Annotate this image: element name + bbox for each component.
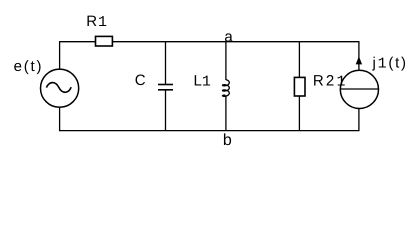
svg-text:R1: R1: [86, 13, 108, 31]
voltage source sine symbol: [46, 83, 71, 93]
wire left branch upper: [59, 41, 61, 69]
svg-text:a: a: [224, 29, 233, 46]
svg-text:L1: L1: [194, 72, 211, 90]
resistor R1 box: [96, 36, 113, 46]
resistor R21 box: [294, 77, 305, 96]
current source j1 circle: [340, 70, 378, 108]
svg-text:C: C: [135, 72, 146, 89]
svg-text:R21: R21: [313, 73, 348, 91]
current source diameter line: [340, 88, 378, 90]
wire inductor branch upper: [225, 42, 227, 80]
wire top horizontal: [60, 41, 359, 43]
svg-text:e(t): e(t): [14, 58, 44, 75]
voltage source e(t) circle: [41, 69, 79, 107]
svg-text:j1(t): j1(t): [372, 55, 408, 73]
wire inductor branch lower: [225, 95, 227, 130]
inductor L1 coil: [223, 80, 230, 97]
current source arrowhead: [356, 56, 362, 64]
capacitor C top plate: [158, 84, 173, 86]
wire R21 branch upper: [298, 42, 300, 78]
svg-text:b: b: [223, 132, 232, 149]
wire bottom horizontal: [60, 130, 359, 132]
wire left branch lower: [59, 107, 61, 131]
wire capacitor branch upper: [165, 42, 167, 85]
wire current source branch lower: [358, 109, 360, 132]
wire R21 branch lower: [298, 96, 300, 131]
capacitor C bottom plate: [158, 89, 173, 91]
wire capacitor branch lower: [165, 90, 167, 131]
wire current source branch upper: [358, 41, 360, 70]
